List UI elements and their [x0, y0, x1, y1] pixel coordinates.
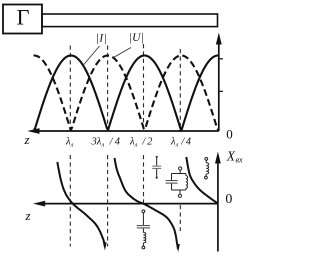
- arrowhead branch 1: [103, 242, 107, 250]
- parallel LC circuit (lambda/4 resonator): [166, 167, 188, 198]
- tick Imax: [219, 58, 223, 60]
- dashed guide bottom at lambda/2: [143, 155, 145, 204]
- tick mid: [219, 90, 223, 92]
- top vertical axis: [216, 33, 222, 132]
- leader to dashed curve: [114, 48, 132, 58]
- reactance branch 1: [57, 162, 105, 247]
- leader to solid curve: [83, 46, 100, 66]
- svg-text:z: z: [24, 132, 30, 147]
- equivalent inductor L1: [205, 158, 209, 180]
- svg-text:|I|: |I|: [96, 33, 108, 45]
- dashed guide line at lambda: [69, 46, 71, 132]
- svg-text:λл/4: λл/4: [170, 137, 192, 149]
- reactance branch 2: [115, 158, 179, 249]
- current standing wave |I| solid curve: [34, 56, 219, 131]
- dashed guide line at 3lambda/4: [107, 46, 109, 132]
- bottom vertical axis X: [215, 152, 221, 252]
- dashed guide line at lambda/4: [179, 49, 181, 131]
- dashed guide bottom at lambda: [69, 155, 71, 247]
- generator box Г: [3, 5, 42, 34]
- dashed guide bottom at 3lambda/4: [107, 155, 109, 247]
- dashed guide line at lambda/2: [143, 44, 145, 131]
- bottom z axis: [33, 201, 218, 207]
- top z axis: [27, 128, 219, 134]
- equivalent capacitor C1: [152, 156, 161, 179]
- svg-text:z: z: [25, 208, 31, 223]
- dashed guide bottom at lambda/4: [179, 205, 181, 231]
- series LC circuit (lambda/2 resonator): [137, 210, 150, 249]
- transmission line: [42, 14, 218, 27]
- reactance branch 3: [186, 157, 218, 203]
- voltage standing wave |U| dashed curve: [34, 56, 219, 131]
- svg-text:0: 0: [225, 192, 232, 207]
- svg-text:0: 0: [226, 126, 233, 141]
- svg-text:Γ: Γ: [17, 5, 30, 30]
- arrowhead branch 2: [176, 244, 180, 252]
- svg-text:|U|: |U|: [129, 32, 144, 44]
